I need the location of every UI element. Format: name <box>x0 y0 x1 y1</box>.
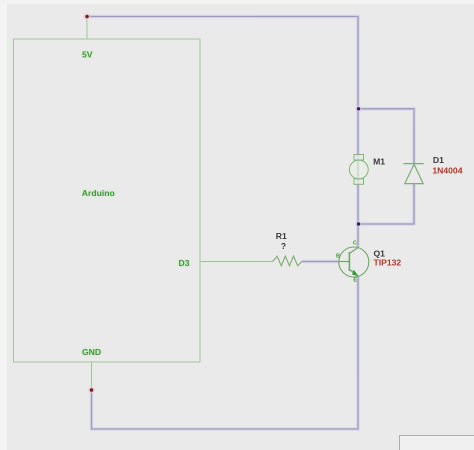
junction node at 5V pin <box>83 13 91 21</box>
transistor Q1 <box>339 247 369 277</box>
wire emitter to GND rail <box>92 277 359 430</box>
svg-text:C: C <box>353 240 357 246</box>
svg-text:D1: D1 <box>433 155 444 165</box>
wire D3 pin to resistor (green) <box>200 261 273 263</box>
junction node motor-diode bottom <box>355 221 362 228</box>
junction node motor-diode top <box>355 105 362 112</box>
svg-text:M1: M1 <box>373 156 385 166</box>
wire 5V pin stub (green) <box>86 17 88 39</box>
Arduino U1 body <box>14 39 201 362</box>
bottom-right panel frame <box>400 436 474 450</box>
svg-text:5V: 5V <box>82 50 93 60</box>
svg-text:B: B <box>336 253 340 259</box>
svg-text:GND: GND <box>82 347 101 357</box>
svg-text:?: ? <box>281 241 286 251</box>
wire diode branch bottom: diode to lower junction <box>359 184 415 225</box>
resistor R1 zigzag <box>273 256 302 266</box>
svg-text:R1: R1 <box>276 231 287 241</box>
wire GND pin stub (green) <box>91 362 93 390</box>
svg-text:E: E <box>353 278 357 284</box>
junction node at GND pin <box>88 386 96 394</box>
diode D1 symbol <box>404 164 424 184</box>
svg-text:TIP132: TIP132 <box>374 258 402 268</box>
svg-text:1N4004: 1N4004 <box>432 166 462 176</box>
wire halos (soft glow under wires) <box>87 17 414 430</box>
wire 5V rail: top horizontal from 5V pin to motor branch <box>87 17 358 248</box>
wire diode branch top: junction to diode anode top <box>359 109 415 164</box>
svg-text:Arduino: Arduino <box>82 188 115 198</box>
wire base: resistor to transistor base <box>302 261 339 263</box>
svg-text:D3: D3 <box>179 258 190 268</box>
motor M1 <box>349 155 368 185</box>
